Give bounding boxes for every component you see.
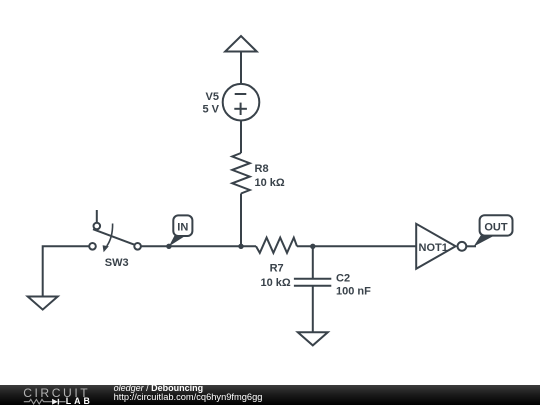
svg-text:R8: R8 bbox=[255, 163, 269, 175]
wire bbox=[466, 245, 476, 247]
svg-text:100 nF: 100 nF bbox=[336, 286, 371, 298]
wire bbox=[240, 121, 242, 154]
wire bbox=[240, 52, 242, 85]
svg-text:10 kΩ: 10 kΩ bbox=[255, 177, 285, 189]
svg-text:LAB: LAB bbox=[66, 396, 93, 405]
svg-text:R7: R7 bbox=[270, 262, 284, 274]
switch SW3 bbox=[89, 210, 141, 269]
capacitor C2 bbox=[294, 246, 371, 297]
voltage source V5 bbox=[202, 84, 259, 121]
svg-text:V5: V5 bbox=[206, 91, 219, 103]
resistor R8 bbox=[232, 153, 285, 194]
svg-text:IN: IN bbox=[177, 222, 188, 234]
ground bbox=[298, 332, 328, 345]
wire bbox=[43, 246, 89, 296]
svg-text:5 V: 5 V bbox=[202, 104, 219, 116]
svg-text:SW3: SW3 bbox=[105, 257, 129, 269]
wire bbox=[240, 194, 242, 247]
wire bbox=[141, 245, 256, 247]
flag IN bbox=[169, 215, 193, 246]
svg-text:10 kΩ: 10 kΩ bbox=[261, 277, 291, 289]
wire bbox=[297, 245, 416, 247]
flag OUT bbox=[474, 215, 513, 246]
wire bbox=[312, 286, 314, 333]
svg-text:OUT: OUT bbox=[484, 221, 508, 233]
logo diode bbox=[52, 398, 58, 404]
footer bar bbox=[0, 385, 540, 405]
svg-text:http://circuitlab.com/cq6hyn9f: http://circuitlab.com/cq6hyn9fmg6gg bbox=[114, 392, 263, 402]
power flag bbox=[225, 36, 257, 52]
junction bbox=[238, 244, 243, 249]
logo resistor zigzag bbox=[24, 399, 52, 404]
junction bbox=[310, 244, 315, 249]
inverter NOT1 bbox=[416, 224, 466, 269]
svg-text:NOT1: NOT1 bbox=[419, 242, 448, 254]
ground bbox=[28, 297, 58, 310]
junction bbox=[166, 244, 171, 249]
svg-text:C2: C2 bbox=[336, 273, 350, 285]
resistor R7 bbox=[256, 238, 297, 289]
